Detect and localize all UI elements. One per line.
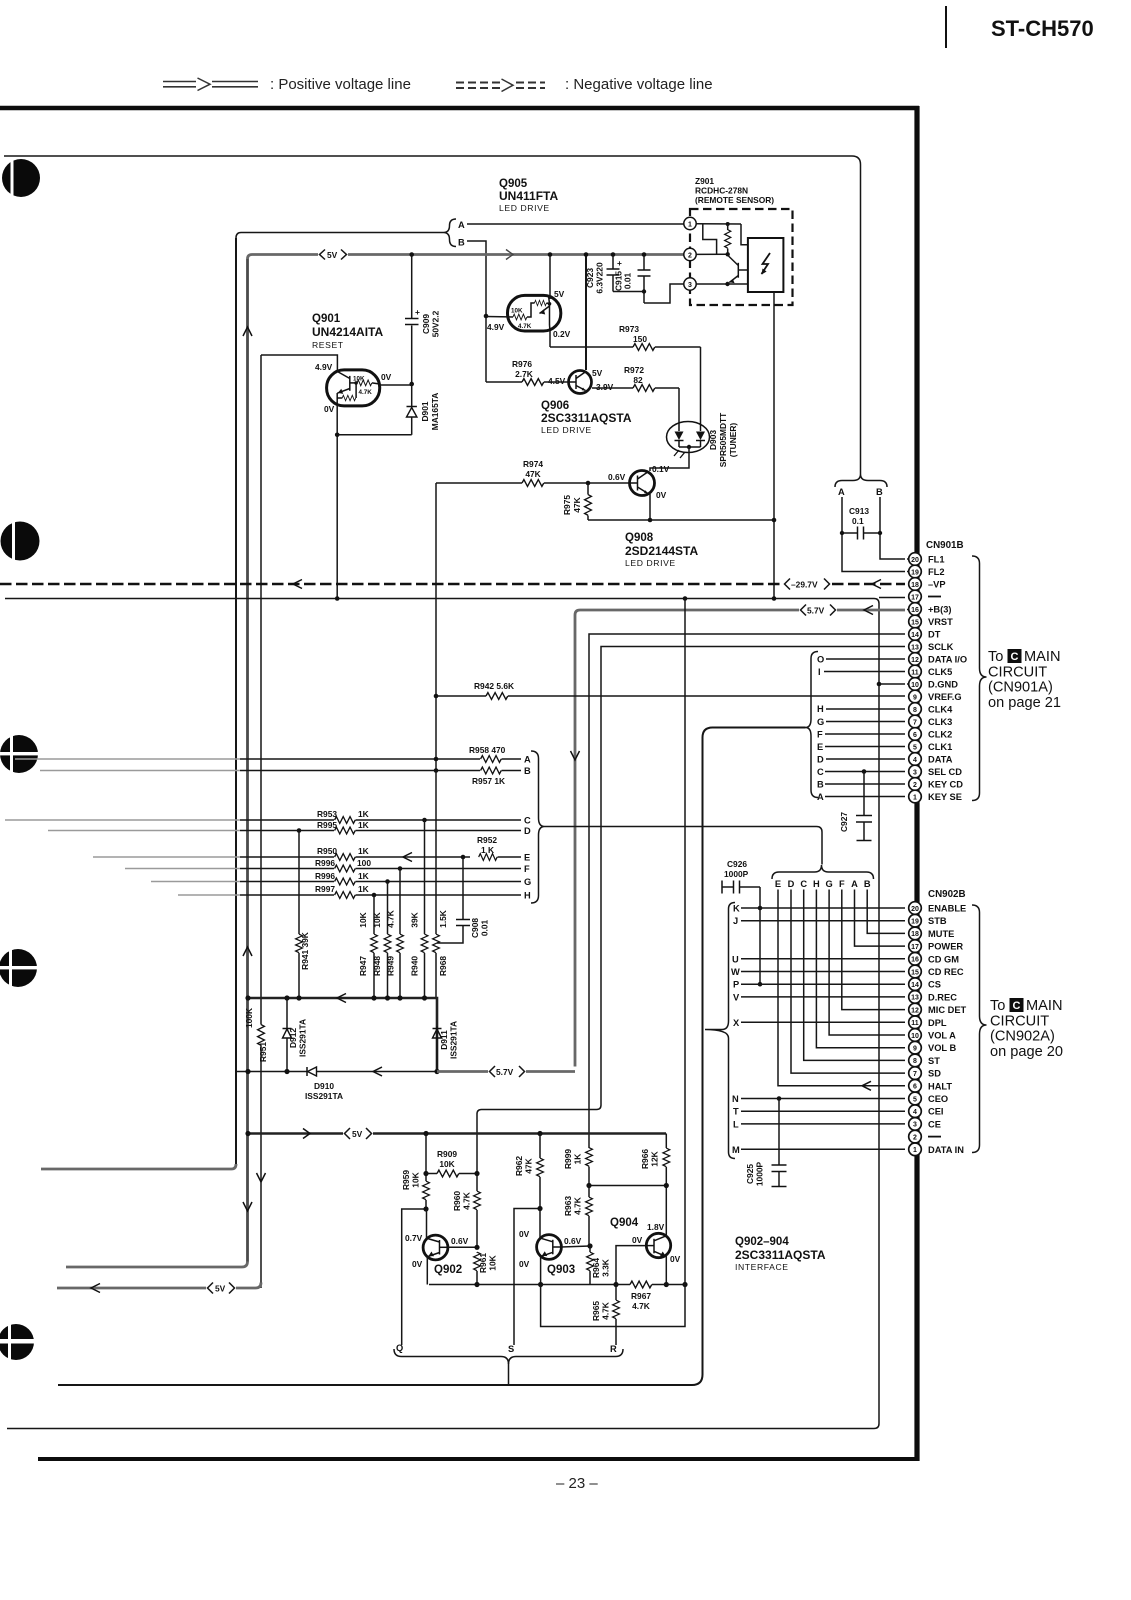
svg-text:CN902B: CN902B — [928, 889, 966, 900]
svg-text:U: U — [732, 954, 739, 964]
svg-text:1K: 1K — [358, 884, 369, 894]
sensor pin 1 — [684, 217, 696, 229]
svg-text:20: 20 — [911, 906, 919, 913]
svg-text:CLK5: CLK5 — [928, 667, 952, 677]
svg-text:C: C — [524, 816, 531, 826]
pin 12 DATA I/O — [909, 653, 967, 666]
svg-text:4.9V: 4.9V — [487, 322, 505, 332]
resistor R952 — [477, 835, 521, 860]
wire FL feed (top inner line to A/B brace) — [4, 156, 861, 474]
row A left segment (gray) — [15, 758, 240, 760]
svg-text:CIRCUIT: CIRCUIT — [988, 664, 1047, 680]
svg-text:C909: C909 — [421, 314, 431, 334]
svg-text:4.7K: 4.7K — [632, 1301, 650, 1311]
wire R972 to D903 left LED — [678, 388, 680, 424]
svg-text:M: M — [732, 1145, 740, 1155]
svg-text:14: 14 — [911, 982, 919, 989]
opto coupler D903 (dual LED) — [667, 412, 739, 467]
wire Q903 collector/emitter vertical — [539, 1209, 541, 1238]
wire K to pin 20 ENABLE — [741, 907, 905, 909]
svg-text:MAIN: MAIN — [1026, 998, 1062, 1014]
svg-text:16: 16 — [911, 607, 919, 614]
pin 10 D.GND — [909, 678, 959, 691]
svg-text:0.2V: 0.2V — [553, 329, 571, 339]
resistor R947 (from row H) — [358, 893, 377, 998]
svg-text:W: W — [731, 967, 740, 977]
wire node B down to pin 20 FL1 — [880, 497, 905, 559]
svg-text:A: A — [817, 792, 824, 802]
svg-text:8: 8 — [913, 1058, 917, 1065]
wire X to pin 11 DPL — [741, 1021, 905, 1023]
svg-text:F: F — [524, 864, 530, 874]
svg-text:10K: 10K — [511, 308, 523, 315]
wire A/B common to left vertical — [236, 233, 444, 239]
svg-text:0.01: 0.01 — [480, 920, 490, 937]
outer border top — [0, 106, 919, 111]
binding hole 5 — [0, 1323, 35, 1361]
wire B down to Q905 base / R976 — [467, 241, 486, 382]
row G left segment (gray) — [151, 881, 240, 883]
binding hole 1 — [2, 158, 40, 198]
svg-text:2SC3311AQSTA: 2SC3311AQSTA — [541, 411, 632, 425]
svg-text:Q903: Q903 — [547, 1264, 575, 1276]
wire Q904 collector/emitter vertical — [665, 1186, 667, 1237]
svg-text:B: B — [524, 766, 531, 776]
wire D901 bottom to emitter — [337, 434, 412, 436]
svg-text:VOL A: VOL A — [928, 1031, 956, 1041]
svg-text:14: 14 — [911, 632, 919, 639]
pin 17 (nc) — [909, 590, 941, 603]
pin 11 CLK5 — [909, 665, 953, 678]
sensor pin 2 — [684, 248, 696, 260]
svg-text:47K: 47K — [524, 1158, 534, 1173]
diode D911 — [433, 1021, 459, 1072]
svg-text:D910: D910 — [314, 1081, 334, 1091]
wire C923/C915 bottoms to sensor pin 3 — [613, 291, 644, 293]
svg-text:5V: 5V — [352, 1129, 363, 1139]
5.7V feed line (gray segment to vertical) — [437, 1070, 575, 1073]
brace CN901A — [972, 556, 987, 801]
svg-text:0V: 0V — [670, 1254, 681, 1264]
flow arrow on -VP line (right) — [872, 580, 881, 589]
svg-text:D912: D912 — [288, 1028, 298, 1048]
pin 4 DATA — [909, 753, 953, 766]
svg-text:O: O — [817, 655, 824, 665]
svg-text:12: 12 — [911, 1007, 919, 1014]
pin 11 DPL — [909, 1016, 947, 1029]
svg-text:D.REC: D.REC — [928, 992, 957, 1002]
pin 7 CLK3 — [909, 715, 953, 728]
letter bracket (O I H G F E D C B A) — [806, 652, 819, 798]
svg-text:H: H — [817, 704, 824, 714]
svg-text:15: 15 — [911, 969, 919, 976]
wire Q902 base feed to node Q — [402, 1209, 426, 1345]
wire pin 14 DT (to R999 below) — [589, 634, 905, 1148]
svg-text:MUTE: MUTE — [928, 929, 954, 939]
wire T to pin 4 CEI — [741, 1110, 905, 1112]
svg-text:CEI: CEI — [928, 1107, 944, 1117]
svg-text:R958 470: R958 470 — [469, 745, 506, 755]
svg-text:D: D — [788, 879, 795, 889]
svg-text:LED DRIVE: LED DRIVE — [625, 558, 676, 568]
svg-text:DPL: DPL — [928, 1018, 947, 1028]
row B wire — [240, 770, 480, 772]
svg-text:10K: 10K — [353, 376, 365, 383]
wire E to pin 6 HALT — [778, 890, 905, 1086]
svg-text:50V2.2: 50V2.2 — [431, 310, 441, 337]
wire C to pin 3 — [825, 771, 905, 773]
Q908 emitter rail — [588, 519, 774, 521]
wire Q905 emitter to 5V — [549, 255, 551, 300]
5V positive line (bottom) — [248, 1132, 666, 1135]
svg-text:ISS291TA: ISS291TA — [305, 1091, 343, 1101]
left vertical line (Q901 base feed, runs to bottom 5V) — [260, 355, 262, 1024]
wire Q901 base to left vertical — [261, 355, 337, 372]
pin 16 +B(3) — [909, 603, 952, 616]
transistor Q902 — [423, 1235, 448, 1260]
wire M to pin 1 DATA IN — [741, 1148, 905, 1150]
wire A to pin 17 POWER — [855, 890, 906, 947]
svg-text:C925: C925 — [745, 1164, 755, 1184]
svg-text:R941 39K: R941 39K — [300, 932, 310, 970]
svg-text:5V: 5V — [554, 289, 565, 299]
svg-text:G: G — [524, 877, 531, 887]
wire pin 13 SCLK (to R909 node below) — [477, 647, 905, 1174]
svg-text:R947: R947 — [358, 956, 368, 976]
svg-text:VRST: VRST — [928, 617, 953, 627]
wire O to pin 12 — [826, 658, 905, 660]
svg-text:VREF.G: VREF.G — [928, 692, 962, 702]
svg-text:To: To — [990, 998, 1005, 1014]
svg-text:1.5K: 1.5K — [438, 910, 448, 928]
flow arrow on -VP line — [293, 580, 302, 589]
capacitor C926 — [722, 859, 760, 894]
svg-text:POWER: POWER — [928, 942, 963, 952]
svg-text:47K: 47K — [525, 469, 540, 479]
pin 20 FL1 — [909, 553, 945, 566]
sensor photodiode window — [748, 238, 784, 292]
row H wire — [240, 894, 334, 896]
svg-text:10K: 10K — [358, 912, 368, 927]
long wire to pin 17 (runs to left edge) — [5, 599, 879, 1429]
svg-text:Q908: Q908 — [625, 532, 654, 544]
svg-text:CIRCUIT: CIRCUIT — [990, 1013, 1049, 1029]
5V feed to Q906 collector — [585, 255, 587, 371]
resistor R941 (from row D) — [296, 828, 310, 998]
svg-text:1: 1 — [913, 1147, 917, 1154]
wire B to pin 18 MUTE — [867, 890, 905, 934]
svg-text:S: S — [508, 1344, 514, 1354]
wire Q908 emitter down to rail — [649, 494, 651, 520]
5.7V positive line to pin 16 — [575, 610, 905, 615]
pin 18 -VP — [909, 578, 946, 591]
svg-text:UN4214AITA: UN4214AITA — [312, 325, 383, 339]
svg-text:Q904: Q904 — [610, 1217, 639, 1229]
pin 14 DT — [909, 628, 941, 641]
svg-text:0V: 0V — [519, 1259, 530, 1269]
resistor R957 — [472, 767, 521, 786]
svg-text:FL2: FL2 — [928, 567, 945, 577]
svg-text:18: 18 — [911, 931, 919, 938]
svg-text:4.7K: 4.7K — [518, 323, 532, 330]
svg-text:A: A — [838, 487, 845, 497]
svg-text:C913: C913 — [849, 506, 869, 516]
svg-text:R967: R967 — [631, 1291, 651, 1301]
svg-text:+: + — [617, 258, 622, 268]
svg-text:2: 2 — [913, 1134, 917, 1141]
svg-text:DATA: DATA — [928, 755, 953, 765]
svg-text:0.7V: 0.7V — [405, 1233, 423, 1243]
resistor R963 — [563, 1186, 592, 1246]
row F wire — [240, 868, 334, 870]
svg-text:8: 8 — [913, 707, 917, 714]
resistor R972 — [592, 365, 679, 391]
pin 8 ST — [909, 1054, 941, 1067]
svg-text:0.01: 0.01 — [623, 273, 633, 290]
flow arrow up on 5V left vertical — [243, 327, 252, 336]
wire A to remote sensor pin 1 — [467, 223, 684, 225]
resistor R951 (in left vertical) — [244, 1008, 268, 1288]
svg-text:G: G — [825, 879, 832, 889]
svg-text:R976: R976 — [512, 359, 532, 369]
wire Q903 base to R963/R964 node — [561, 1246, 590, 1247]
dashed negative line -VP to pin 18 — [0, 583, 905, 586]
bracket over letters E D C H G F A B — [772, 865, 874, 879]
svg-text:DT: DT — [928, 630, 941, 640]
wire D903 cathodes to Q908 collector — [650, 447, 689, 471]
svg-text:CEO: CEO — [928, 1094, 948, 1104]
svg-text:Q901: Q901 — [312, 313, 341, 325]
transistor Q908 — [629, 471, 655, 496]
svg-text:1K: 1K — [358, 809, 369, 819]
wire Q904 base to rail node — [616, 1246, 646, 1285]
stub to pin 17 — [879, 597, 905, 599]
svg-text:2.7K: 2.7K — [515, 369, 533, 379]
svg-text:CS: CS — [928, 980, 941, 990]
wire B to pin 2 — [825, 783, 905, 785]
resistor R973 — [550, 324, 701, 350]
svg-text:D911: D911 — [439, 1030, 449, 1050]
svg-text:0V: 0V — [632, 1235, 643, 1245]
svg-text:R972: R972 — [624, 365, 644, 375]
svg-text:15: 15 — [911, 619, 919, 626]
svg-text:R940: R940 — [410, 956, 420, 976]
sensor pin 3 internal wire — [696, 283, 748, 285]
row C wire — [240, 819, 334, 821]
wire sensor output down to Q908 emitter line — [773, 292, 775, 599]
svg-text:R957 1K: R957 1K — [472, 776, 505, 786]
svg-text:5: 5 — [913, 744, 917, 751]
resistor R909 — [423, 1149, 479, 1177]
pin 10 VOL A — [909, 1029, 956, 1042]
svg-text:C: C — [1011, 651, 1019, 663]
svg-text:B: B — [817, 780, 824, 790]
5V label (bottom line) — [343, 1126, 373, 1141]
svg-text:Q902–904: Q902–904 — [735, 1236, 789, 1248]
svg-text:STB: STB — [928, 916, 947, 926]
svg-text:3.3K: 3.3K — [601, 1259, 611, 1277]
wire A to pin 1 — [825, 796, 905, 798]
svg-text:CLK2: CLK2 — [928, 730, 952, 740]
diode D912 — [283, 995, 308, 1071]
resistor R997 — [315, 884, 521, 898]
row G wire — [240, 881, 334, 883]
svg-text:P: P — [733, 980, 739, 990]
wire Q902 collector/emitter vertical — [426, 1209, 428, 1238]
svg-text:2SC3311AQSTA: 2SC3311AQSTA — [735, 1248, 826, 1262]
svg-text:CLK3: CLK3 — [928, 717, 952, 727]
resistor R961 — [474, 1252, 498, 1285]
pin 19 STB — [909, 914, 947, 927]
resistor R976 — [486, 359, 569, 385]
flow arrow down on 5.7V vertical — [571, 751, 580, 760]
svg-text:R966: R966 — [640, 1149, 650, 1169]
svg-text:4.7K: 4.7K — [573, 1197, 583, 1215]
svg-text:CN901B: CN901B — [926, 540, 964, 551]
svg-text:+B(3): +B(3) — [928, 605, 952, 615]
svg-text:DATA I/O: DATA I/O — [928, 655, 967, 665]
svg-text:(CN902A): (CN902A) — [990, 1029, 1055, 1045]
svg-text:82: 82 — [633, 375, 643, 385]
svg-text:C: C — [817, 767, 824, 777]
svg-text:4: 4 — [913, 1109, 917, 1116]
note: to main circuit CN902A — [990, 998, 1063, 1060]
stub to pin 10 D.GND — [879, 683, 905, 685]
svg-text:5: 5 — [913, 1096, 917, 1103]
pin 6 CLK2 — [909, 728, 953, 741]
svg-text:D: D — [524, 826, 531, 836]
svg-text:C927: C927 — [839, 812, 849, 832]
wire R973 to D903 right LED — [700, 347, 702, 424]
binding hole 4 — [0, 948, 38, 988]
svg-text:R953: R953 — [317, 809, 337, 819]
svg-text:LED DRIVE: LED DRIVE — [541, 425, 592, 435]
svg-text:0V: 0V — [656, 490, 667, 500]
diode D910 — [305, 1067, 437, 1101]
svg-text:D903: D903 — [708, 430, 718, 450]
flow arrow down on 5V left vertical (bottom) — [243, 1202, 252, 1211]
long vertical wire (pin17 line to interface rail) — [684, 599, 686, 1285]
svg-text:9: 9 — [913, 694, 917, 701]
svg-text:1K: 1K — [573, 1154, 583, 1165]
resistor R995 — [317, 820, 521, 834]
svg-text:47K: 47K — [572, 497, 582, 512]
svg-text:12K: 12K — [650, 1151, 660, 1166]
pin 17 POWER — [909, 940, 964, 953]
flow arrow on 5.7V line — [864, 606, 873, 615]
flow arrow on 5V return line — [91, 1284, 100, 1293]
flow arrow on row E — [403, 853, 412, 862]
svg-text:A: A — [524, 755, 531, 765]
svg-text:2: 2 — [913, 782, 917, 789]
svg-text:VOL B: VOL B — [928, 1043, 957, 1053]
wire Q901 emitter down — [336, 405, 338, 599]
svg-text:–VP: –VP — [928, 580, 946, 590]
svg-text:MAIN: MAIN — [1024, 649, 1060, 665]
brace collecting letters K-M — [705, 903, 735, 1159]
svg-text:N: N — [732, 1094, 739, 1104]
flow arrow on bus — [337, 994, 346, 1003]
svg-text:13: 13 — [911, 995, 919, 1002]
svg-text:150: 150 — [633, 334, 647, 344]
svg-text:HALT: HALT — [928, 1081, 952, 1091]
header divider bar — [945, 6, 947, 48]
transistor Q904 — [646, 1233, 670, 1257]
svg-text:R995: R995 — [317, 820, 337, 830]
remote sensor Z901 dashed enclosure — [690, 209, 793, 305]
outer border bottom — [38, 1457, 919, 1461]
wire node A down to pin 19 FL2 — [842, 497, 905, 572]
svg-text:(CN901A): (CN901A) — [988, 680, 1053, 696]
wire C926 down to rows K and P — [759, 887, 761, 984]
sensor internal phototransistor — [729, 256, 748, 283]
svg-text:FL1: FL1 — [928, 555, 945, 565]
resistor R996 — [315, 858, 521, 872]
wire V to pin 13 D.REC — [741, 996, 905, 998]
svg-text:ENABLE: ENABLE — [928, 904, 966, 914]
resistor R959 — [401, 1131, 429, 1209]
pin 3 SEL CD — [909, 765, 963, 778]
pin 13 D.REC — [909, 991, 958, 1004]
transistor Q903 — [537, 1235, 562, 1260]
wire Q905 base to B vertical — [486, 316, 513, 319]
row E wire — [240, 856, 334, 858]
pin 5 CLK1 — [909, 740, 953, 753]
svg-text:DATA IN: DATA IN — [928, 1145, 964, 1155]
resistor R962 — [514, 1131, 543, 1209]
svg-text:B: B — [876, 487, 883, 497]
svg-text:R996: R996 — [315, 871, 335, 881]
bus wire from rows bracket to lower letter bracket — [545, 827, 823, 865]
svg-text:5V: 5V — [327, 250, 338, 260]
svg-text:1: 1 — [913, 794, 917, 801]
pin 16 CD GM — [909, 953, 960, 966]
svg-text:R909: R909 — [437, 1149, 457, 1159]
5.7V label (bottom) — [488, 1064, 526, 1079]
svg-text:SEL CD: SEL CD — [928, 767, 962, 777]
svg-text:CLK4: CLK4 — [928, 705, 953, 715]
svg-text:J: J — [733, 916, 738, 926]
svg-text:2SD2144STA: 2SD2144STA — [625, 544, 698, 558]
resistor R942 — [434, 681, 905, 699]
svg-text:CE: CE — [928, 1119, 941, 1129]
pin 15 CD REC — [909, 965, 964, 978]
interstage line R999/R966 — [589, 1185, 666, 1187]
5V vertical positive line (left) — [246, 259, 249, 1262]
svg-text:Q902: Q902 — [434, 1264, 462, 1276]
svg-text:E: E — [524, 853, 530, 863]
svg-text:0.6V: 0.6V — [608, 472, 626, 482]
svg-text:R974: R974 — [523, 459, 543, 469]
svg-text:SCLK: SCLK — [928, 642, 954, 652]
voltage label -29.7V — [783, 577, 831, 592]
flow arrow on HALT wire — [862, 1081, 871, 1090]
svg-text:RCDHC-278N: RCDHC-278N — [695, 186, 748, 196]
legend negative voltage line symbol — [456, 78, 545, 93]
svg-text:3: 3 — [913, 769, 917, 776]
svg-text:10K: 10K — [411, 1172, 421, 1187]
svg-text:10K: 10K — [439, 1159, 454, 1169]
svg-text:3.9V: 3.9V — [596, 382, 614, 392]
pin 9 VREF.G — [909, 690, 962, 703]
pin 7 SD — [909, 1067, 942, 1080]
pin 9 VOL B — [909, 1041, 957, 1054]
brace CN902A — [972, 905, 987, 1153]
wire C to pin 8 ST — [804, 890, 905, 1061]
legend positive voltage line symbol — [163, 76, 258, 93]
wire G to pin 10 VOL A — [829, 890, 905, 1036]
svg-text:6.3V220: 6.3V220 — [595, 262, 605, 294]
